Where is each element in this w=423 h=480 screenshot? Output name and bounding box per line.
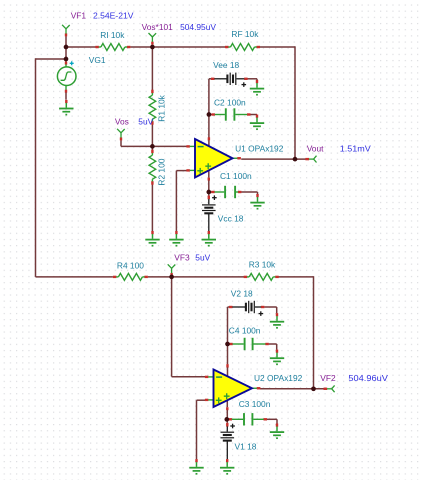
svg-text:5uV: 5uV (138, 116, 153, 126)
svg-text:Vout: Vout (307, 143, 324, 153)
svg-text:Vos: Vos (115, 116, 129, 126)
svg-text:VF1: VF1 (71, 10, 87, 20)
svg-text:RI 10k: RI 10k (100, 30, 125, 40)
svg-text:Vos*101: Vos*101 (142, 22, 174, 32)
svg-text:Vee 18: Vee 18 (213, 60, 239, 70)
svg-text:R2 100: R2 100 (156, 158, 166, 185)
svg-text:R4 100: R4 100 (117, 260, 144, 270)
svg-text:U2 OPAx192: U2 OPAx192 (254, 373, 303, 383)
svg-text:VG1: VG1 (89, 55, 106, 65)
svg-text:V2 18: V2 18 (231, 289, 253, 299)
svg-text:V1 18: V1 18 (235, 442, 257, 452)
svg-text:U1 OPAx192: U1 OPAx192 (235, 144, 284, 154)
svg-text:C1 100n: C1 100n (220, 171, 252, 181)
svg-text:C4 100n: C4 100n (229, 326, 261, 336)
svg-text:C3 100n: C3 100n (239, 399, 271, 409)
svg-text:VF3: VF3 (174, 252, 190, 262)
svg-text:C2 100n: C2 100n (214, 97, 246, 107)
svg-text:Vcc 18: Vcc 18 (218, 213, 244, 223)
svg-text:1.51mV: 1.51mV (340, 143, 371, 153)
svg-text:504.95uV: 504.95uV (180, 22, 216, 32)
svg-text:504.96uV: 504.96uV (348, 373, 388, 383)
svg-text:2.54E-21V: 2.54E-21V (93, 10, 134, 20)
svg-text:5uV: 5uV (195, 252, 210, 262)
svg-text:R1 10k: R1 10k (156, 94, 166, 121)
svg-text:VF2: VF2 (320, 373, 336, 383)
svg-text:R3 10k: R3 10k (249, 260, 276, 270)
svg-text:RF 10k: RF 10k (231, 29, 259, 39)
